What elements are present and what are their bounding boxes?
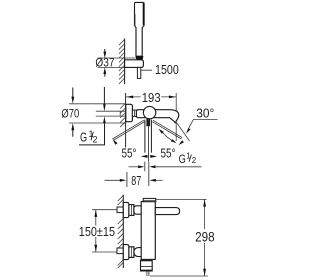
svg-text:Ø70: Ø70 [61,107,79,121]
svg-text:55°: 55° [122,146,137,161]
svg-text:150±15: 150±15 [79,224,115,239]
svg-text:298: 298 [195,229,215,244]
svg-text:87: 87 [131,173,141,188]
svg-text:Ø37: Ø37 [95,56,114,70]
svg-text:193: 193 [142,90,161,105]
svg-text:G: G [179,152,186,166]
svg-text:55°: 55° [161,146,176,161]
svg-text:2: 2 [192,156,197,165]
svg-text:1500: 1500 [155,62,179,77]
svg-text:2: 2 [93,134,98,144]
svg-text:30°: 30° [196,106,214,121]
svg-text:G: G [80,130,87,145]
